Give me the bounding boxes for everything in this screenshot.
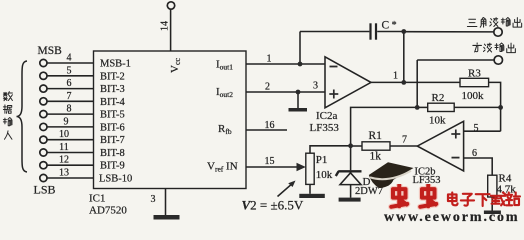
Vcc supply terminal pin14 bbox=[167, 2, 174, 9]
svg-text:Vref IN: Vref IN bbox=[207, 161, 238, 174]
wire pin2 Iout2 to IC2a non-inverting input bbox=[246, 91, 325, 93]
resistor R3 body bbox=[460, 78, 489, 86]
svg-text:10k: 10k bbox=[429, 114, 446, 126]
node R2/R3/pin5 bbox=[498, 105, 503, 110]
wire row BIT-5 pin8 bbox=[47, 113, 94, 115]
svg-text:R2: R2 bbox=[432, 92, 445, 104]
svg-text:BIT-9: BIT-9 bbox=[100, 161, 125, 172]
input terminal 4 bbox=[40, 98, 47, 105]
svg-text:7: 7 bbox=[402, 134, 407, 145]
svg-text:2: 2 bbox=[265, 82, 270, 93]
zener cathode bar bbox=[336, 171, 362, 176]
svg-text:14: 14 bbox=[160, 21, 171, 31]
CJK black labels bbox=[3, 17, 521, 139]
svg-text:IC2a: IC2a bbox=[316, 110, 338, 122]
ground IC1 pin3 stem bbox=[165, 189, 167, 216]
input terminal 7 bbox=[40, 136, 47, 143]
svg-text:BIT-7: BIT-7 bbox=[100, 135, 125, 146]
svg-text:LSB-10: LSB-10 bbox=[99, 174, 132, 185]
wire Vcc bbox=[170, 9, 172, 51]
node cap/triangle-out bbox=[401, 29, 406, 34]
svg-text:1: 1 bbox=[267, 54, 272, 65]
node opamp-output/feedback bbox=[401, 80, 406, 85]
svg-text:6: 6 bbox=[472, 148, 477, 159]
watermark 电子下载站 bbox=[448, 192, 520, 206]
wire node vertical cap to opamp output bbox=[403, 32, 405, 83]
wire square bus vertical bbox=[416, 60, 418, 107]
svg-text:3: 3 bbox=[151, 194, 156, 205]
svg-text:5: 5 bbox=[67, 65, 72, 76]
wire R4 bottom bbox=[491, 197, 493, 211]
wire row BIT-4 pin7 bbox=[47, 100, 94, 102]
svg-text:16: 16 bbox=[265, 120, 275, 131]
op-amp U2b IC2b triangle bbox=[417, 121, 463, 171]
ground bar P1 bbox=[299, 194, 325, 198]
svg-text:R3: R3 bbox=[468, 67, 481, 79]
resistor R2 body bbox=[428, 103, 455, 111]
svg-text:P1: P1 bbox=[316, 154, 328, 166]
svg-text:10: 10 bbox=[59, 129, 69, 140]
op-amp U2a IC2a triangle bbox=[325, 57, 371, 108]
op-amp IC2b minus bbox=[452, 157, 460, 159]
ground bar R4 bbox=[484, 211, 501, 215]
wire row MSB-1 pin4 bbox=[47, 62, 94, 64]
resistor R4 body bbox=[488, 175, 497, 197]
node feedback/pin1 bbox=[298, 62, 303, 67]
svg-text:BIT-2: BIT-2 bbox=[100, 71, 125, 82]
input terminal 6 bbox=[40, 123, 47, 130]
zener D 2DW7 stem top bbox=[350, 146, 352, 171]
svg-text:8: 8 bbox=[67, 104, 72, 115]
input terminal 5 bbox=[40, 111, 47, 118]
arrowhead V2 annotation bbox=[288, 181, 295, 188]
wire P1 bottom bbox=[309, 184, 311, 193]
svg-text:BIT-5: BIT-5 bbox=[100, 110, 125, 121]
svg-text:9: 9 bbox=[64, 116, 69, 127]
arrowhead P1 wiper bbox=[297, 163, 306, 171]
IC pin name labels bbox=[99, 59, 132, 185]
wire row LSB-10 pin13 bbox=[47, 177, 94, 179]
capacitor C* plates bbox=[371, 23, 377, 39]
wire R1 to IC2b output pin7 bbox=[390, 145, 417, 147]
svg-text:1: 1 bbox=[393, 71, 398, 82]
svg-text:BIT-8: BIT-8 bbox=[100, 148, 125, 159]
svg-text:12: 12 bbox=[59, 155, 69, 166]
wire IC2a output to R3 bbox=[371, 81, 460, 83]
svg-text:IC1: IC1 bbox=[89, 193, 106, 205]
wire P1 top to node bbox=[310, 146, 351, 153]
node square bus / R2 bbox=[415, 105, 420, 110]
watermark 虫虫 halo bbox=[391, 185, 436, 207]
labels: pin numbers left bbox=[59, 53, 72, 179]
wire pin1 Iout1 to IC2a inverting input bbox=[246, 63, 325, 65]
terminal triangle-wave output bbox=[494, 28, 502, 36]
input terminal 10 bbox=[40, 174, 47, 181]
potentiometer P1 body bbox=[306, 153, 314, 184]
resistor R1 body bbox=[362, 142, 390, 150]
input terminal 8 bbox=[40, 149, 47, 156]
svg-text:LF353: LF353 bbox=[310, 122, 340, 134]
wire feedback top bbox=[300, 31, 369, 33]
svg-text:R1: R1 bbox=[369, 130, 383, 142]
wire square-wave output bbox=[417, 59, 494, 61]
wire row BIT-8 pin11 bbox=[47, 152, 94, 154]
svg-text:AD7520: AD7520 bbox=[89, 205, 127, 217]
op-amp IC2b plus bbox=[451, 130, 460, 139]
wire row BIT-6 pin9 bbox=[47, 126, 94, 128]
svg-text:BIT-3: BIT-3 bbox=[100, 84, 125, 95]
svg-text:MSB: MSB bbox=[38, 45, 63, 57]
wire row BIT-2 pin5 bbox=[47, 75, 94, 77]
brace data-input bbox=[17, 61, 28, 172]
svg-text:MSB-1: MSB-1 bbox=[100, 59, 131, 70]
label 数据输入 (data input, vertical) bbox=[3, 92, 12, 101]
wire R1 left lead bbox=[351, 145, 362, 147]
input terminal 9 bbox=[40, 162, 47, 169]
ground bar IC2a input bbox=[289, 108, 308, 112]
svg-text:15: 15 bbox=[265, 156, 275, 167]
wire feedback vertical bbox=[299, 32, 301, 65]
wire to triangle output terminal bbox=[404, 31, 494, 33]
node R1/zener/P1 bbox=[348, 143, 353, 148]
wire row BIT-7 pin10 bbox=[47, 139, 94, 141]
svg-text:4: 4 bbox=[67, 53, 72, 64]
label 方波输出 (square wave output) bbox=[473, 43, 482, 52]
label 三角波输出 (triangle wave output) bbox=[467, 19, 476, 26]
svg-text:100k: 100k bbox=[462, 90, 485, 102]
svg-text:6: 6 bbox=[67, 78, 72, 89]
zener stem bottom bbox=[350, 185, 352, 198]
wire square bus to R1 node bbox=[351, 107, 418, 145]
svg-text:C *: C * bbox=[382, 19, 397, 31]
svg-text:BIT-6: BIT-6 bbox=[100, 122, 125, 133]
svg-text:www.eeworm.com: www.eeworm.com bbox=[384, 210, 519, 223]
terminal square-wave output bbox=[494, 56, 502, 64]
svg-text:11: 11 bbox=[59, 142, 69, 153]
wire pin16 Rfb (open) bbox=[246, 129, 287, 131]
svg-text:V2 = ±6.5V: V2 = ±6.5V bbox=[242, 198, 304, 213]
ground IC2a +input stem bbox=[297, 92, 299, 108]
op-amp IC2a plus bbox=[329, 90, 338, 99]
svg-text:7: 7 bbox=[67, 91, 72, 102]
svg-text:R4: R4 bbox=[499, 173, 512, 185]
svg-text:3: 3 bbox=[313, 81, 318, 92]
wire row BIT-9 pin12 bbox=[47, 164, 94, 166]
op-amp IC2a minus bbox=[330, 66, 338, 68]
zener triangle bbox=[340, 173, 361, 185]
wire R2 left lead bbox=[417, 106, 428, 108]
wire pin6 inverting to R4 bbox=[464, 158, 493, 175]
watermark 虫虫 red bbox=[391, 185, 436, 207]
input terminal 2 bbox=[40, 72, 47, 79]
svg-text:13: 13 bbox=[59, 168, 69, 179]
svg-text:LSB: LSB bbox=[34, 183, 56, 197]
wire R3 to pin5 node bbox=[489, 82, 501, 131]
svg-text:5: 5 bbox=[474, 123, 479, 134]
watermark moth logo bbox=[369, 162, 414, 188]
wire row BIT-3 pin6 bbox=[47, 88, 94, 90]
IC U1 AD7520 box bbox=[94, 51, 247, 189]
wire pin15 VrefIN to P1 wiper bbox=[246, 166, 299, 168]
wire cap to triangle-out node bbox=[377, 31, 404, 33]
node pin2/ground bbox=[296, 90, 301, 95]
svg-text:BIT-4: BIT-4 bbox=[100, 97, 125, 108]
annotation arrow V2 bbox=[278, 184, 293, 197]
svg-text:1k: 1k bbox=[370, 150, 382, 162]
wire pin5 non-inverting bbox=[464, 130, 501, 132]
input terminal 1 bbox=[40, 59, 47, 66]
svg-text:10k: 10k bbox=[316, 169, 333, 181]
input terminal 3 bbox=[40, 85, 47, 92]
ground bar zener bbox=[339, 198, 361, 202]
wire R2 right lead bbox=[454, 106, 500, 108]
ground bar IC1 pin3 bbox=[154, 215, 180, 220]
